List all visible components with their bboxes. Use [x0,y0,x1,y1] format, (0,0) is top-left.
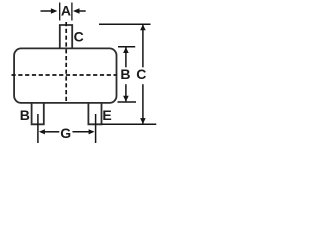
dim B vertical line lower [125,84,127,101]
svg-text:G: G [60,125,71,141]
dim C vertical line upper [142,25,144,68]
G left extension line [37,114,39,143]
dim B vertical line upper [125,48,127,68]
dim A extension ticks [59,3,61,21]
svg-text:C: C [74,29,84,45]
bottom reference line (pin seating plane) [102,123,157,125]
base pin (bottom left) [32,103,44,124]
dim C vertical line lower [142,84,144,123]
svg-text:A: A [61,2,71,18]
package body [14,48,116,103]
dim A right arrow [79,10,86,12]
C top extension line [99,23,151,25]
svg-text:B: B [20,107,30,123]
collector tab [60,25,72,48]
dim A left arrow [41,10,52,12]
svg-text:E: E [102,107,111,123]
emitter pin (bottom right) [88,103,101,124]
dim G right arrow [73,131,90,133]
dim G left arrow [44,131,59,133]
G right extension line [95,114,97,143]
vertical centerline [65,22,67,104]
B top extension line [118,46,135,48]
svg-text:B: B [120,66,130,82]
svg-text:C: C [136,66,146,82]
horizontal centerline [12,74,117,76]
B bottom extension line [118,101,137,103]
